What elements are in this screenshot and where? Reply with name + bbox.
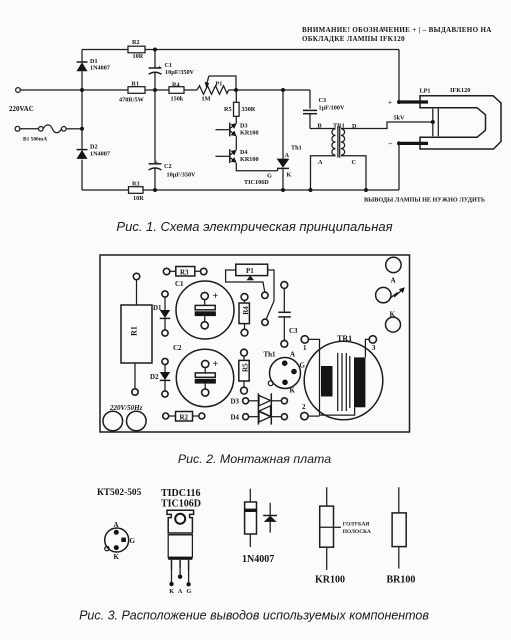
potentiometer P1 1M	[197, 76, 236, 103]
svg-text:A: A	[178, 588, 183, 595]
junction A lead/bottom rail	[309, 188, 313, 192]
svg-text:Рис. 1. Схема электрическая пр: Рис. 1. Схема электрическая принципальна…	[116, 219, 392, 234]
svg-text:D3: D3	[231, 398, 240, 406]
capacitor C3 1uF/100V	[303, 97, 345, 129]
thyristor Th1 (PCB)	[264, 351, 306, 395]
svg-text:ПОЛОСКА: ПОЛОСКА	[343, 529, 371, 535]
svg-text:D3: D3	[240, 123, 248, 130]
svg-text:ОБКЛАДКЕ ЛАМПЫ IFK120: ОБКЛАДКЕ ЛАМПЫ IFK120	[302, 35, 405, 43]
capacitor C1 (PCB)	[175, 280, 234, 339]
svg-text:1µF/100V: 1µF/100V	[319, 105, 345, 112]
svg-text:+: +	[213, 291, 219, 302]
trigger diode D4 KR100	[216, 149, 259, 163]
svg-text:470R/5W: 470R/5W	[119, 97, 145, 104]
svg-text:TIC106D: TIC106D	[161, 499, 201, 510]
svg-text:B1 500mA: B1 500mA	[23, 137, 47, 143]
svg-text:R5: R5	[241, 363, 249, 372]
svg-text:K: K	[169, 588, 174, 595]
diode D1 (PCB)	[153, 291, 170, 336]
wire: right riser top (to lamp +)	[398, 50, 400, 103]
svg-text:–: –	[388, 140, 393, 148]
wire: left vertical bus segments	[81, 50, 83, 191]
svg-text:R3: R3	[132, 181, 140, 188]
junction Th1 cathode/bottom rail	[281, 188, 285, 192]
resistor R5 (PCB)	[239, 349, 249, 394]
wire: rail corner down to C3	[309, 90, 311, 109]
svg-text:C3: C3	[319, 97, 327, 104]
svg-text:K: K	[287, 172, 292, 179]
svg-text:Рис. 2. Монтажная плата: Рис. 2. Монтажная плата	[178, 452, 331, 466]
diode symbol beside 1N4007	[263, 503, 277, 533]
wire: top input lead to middle rail	[20, 89, 82, 91]
svg-text:D2: D2	[150, 373, 159, 381]
svg-text:+: +	[213, 359, 219, 370]
svg-text:КТ502-505: КТ502-505	[97, 488, 142, 498]
diode D2 (PCB)	[150, 358, 170, 397]
wire: right riser bottom (lamp - to rail)	[398, 143, 400, 190]
svg-text:C1: C1	[165, 62, 173, 69]
svg-text:G: G	[300, 362, 306, 370]
node - terminal	[397, 141, 401, 145]
wire: TR1 D lead to trigger (5kV)	[341, 122, 433, 129]
svg-text:IFK120: IFK120	[450, 87, 470, 94]
svg-text:1M: 1M	[202, 96, 211, 103]
resistor R1 (PCB)	[121, 273, 152, 395]
resistor R3 10R	[129, 181, 145, 203]
svg-text:ГОЛУБАЯ: ГОЛУБАЯ	[343, 522, 370, 528]
svg-text:150k: 150k	[171, 96, 184, 103]
wire: D3 to D4	[235, 136, 237, 150]
svg-text:10µF/350V: 10µF/350V	[165, 69, 195, 76]
svg-text:+: +	[388, 99, 392, 107]
transformer TR1	[318, 123, 358, 167]
svg-text:A: A	[290, 351, 295, 359]
svg-text:R2: R2	[180, 414, 189, 422]
transformer TR1 (PCB)	[301, 334, 383, 420]
svg-text:A: A	[114, 521, 119, 529]
wire: D4 to gate of Th1	[236, 163, 277, 171]
svg-text:A: A	[318, 159, 323, 166]
svg-text:1N4007: 1N4007	[90, 65, 110, 72]
hole A (PCB)	[386, 257, 401, 284]
svg-text:+: +	[158, 64, 162, 71]
svg-text:R4: R4	[172, 81, 180, 88]
terminal hole left (PCB)	[103, 411, 123, 431]
junction trigger electrode	[431, 120, 435, 124]
trigger diode BR100 package	[387, 487, 416, 585]
svg-text:C1: C1	[175, 280, 184, 288]
svg-text:P1: P1	[216, 81, 223, 88]
hole K (PCB)	[386, 311, 401, 333]
trigger diode KR100 package	[315, 487, 371, 585]
svg-text:R4: R4	[242, 306, 250, 315]
svg-text:Th1: Th1	[291, 145, 302, 152]
svg-text:D4: D4	[231, 414, 240, 422]
transistor KT502-505 package	[97, 488, 142, 561]
diode D1 1N4007	[77, 58, 110, 72]
note text top right	[302, 26, 492, 43]
capacitor C2 (PCB)	[173, 344, 234, 407]
input terminal J1 bottom	[15, 126, 20, 131]
svg-text:K: K	[290, 387, 296, 395]
junction P1/R5 on middle rail	[234, 88, 238, 92]
svg-text:R5: R5	[224, 106, 232, 113]
svg-text:220VAC: 220VAC	[9, 105, 34, 113]
svg-text:C: C	[352, 159, 356, 166]
trigger diodes D3/D4 block (PCB)	[231, 393, 288, 424]
junction C lead/bottom rail	[364, 188, 368, 192]
trigger diode D3 KR100	[216, 123, 259, 137]
svg-text:1N4007: 1N4007	[90, 151, 110, 158]
svg-text:10R: 10R	[133, 195, 144, 202]
wire: fuse to left bus	[66, 128, 82, 130]
resistor R4 150k	[169, 81, 184, 102]
svg-text:KR100: KR100	[240, 130, 259, 137]
junction C2 bottom rail	[153, 188, 157, 192]
junction Th1 anode on middle rail	[281, 88, 285, 92]
svg-text:TIC106D: TIC106D	[244, 179, 269, 186]
svg-text:R1: R1	[130, 326, 139, 336]
diode 1N4007 package	[242, 489, 274, 565]
svg-text:R2: R2	[132, 39, 140, 46]
svg-text:1: 1	[303, 344, 307, 352]
board outline	[100, 255, 410, 432]
junction at bus/fuse row	[80, 127, 84, 131]
svg-text:Th1: Th1	[264, 351, 277, 359]
wire: R5 branch from rail	[235, 90, 237, 102]
svg-text:D4: D4	[240, 149, 248, 156]
wire: bottom rail	[82, 189, 399, 191]
fuse B1 500mA	[23, 125, 66, 143]
svg-text:5kV: 5kV	[394, 115, 406, 122]
svg-text:C3: C3	[289, 327, 298, 335]
flash lamp LP1 IFK120	[399, 87, 501, 149]
svg-text:+: +	[155, 159, 159, 166]
svg-text:TIDC116: TIDC116	[161, 488, 200, 499]
capacitor C1 10uF/350V	[149, 62, 195, 76]
potentiometer P1 (PCB)	[226, 264, 274, 325]
svg-text:10R: 10R	[133, 53, 144, 60]
resistor R1 470R/5W	[119, 81, 145, 104]
input terminal J1 top	[16, 88, 21, 93]
svg-text:A: A	[391, 277, 396, 285]
svg-text:C2: C2	[164, 163, 172, 170]
wire: middle rail segments	[82, 89, 310, 91]
svg-text:330R: 330R	[242, 106, 256, 113]
svg-text:K: K	[114, 553, 120, 561]
svg-text:R3: R3	[180, 269, 189, 277]
svg-text:KR100: KR100	[315, 575, 345, 586]
resistor R3 (PCB)	[163, 267, 206, 277]
wire: bottom input lead	[20, 128, 39, 130]
svg-text:KR100: KR100	[240, 156, 259, 163]
wire: C3 to TR1 primary (B)	[310, 128, 336, 130]
svg-text:BR100: BR100	[387, 575, 416, 586]
svg-text:ВЫВОДЫ ЛАМПЫ НЕ НУЖНО ЛУДИТЬ: ВЫВОДЫ ЛАМПЫ НЕ НУЖНО ЛУДИТЬ	[364, 197, 485, 204]
svg-text:B: B	[318, 123, 322, 130]
wire: C1-C2 vertical branch	[154, 50, 156, 191]
node + terminal	[397, 100, 401, 104]
capacitor C3 (PCB)	[278, 282, 298, 348]
terminal hole right (PCB)	[127, 411, 147, 431]
svg-text:2: 2	[302, 403, 306, 411]
hole R with trimmer arrow (PCB)	[376, 287, 405, 303]
wire: TR1 C lead to bottom rail	[341, 156, 366, 190]
resistor R2 (PCB)	[163, 412, 205, 422]
svg-text:LP1: LP1	[420, 88, 431, 95]
svg-text:P1: P1	[246, 267, 254, 275]
svg-text:C2: C2	[173, 344, 182, 352]
junction C1 top	[153, 48, 157, 52]
wire: TR1 A lead to bottom rail	[311, 156, 336, 190]
resistor R5 330R	[224, 102, 256, 116]
wire: top rail	[82, 49, 399, 51]
resistor R2 10R	[128, 39, 145, 60]
svg-text:R1: R1	[132, 81, 140, 88]
svg-text:G: G	[187, 588, 192, 595]
wire: R5 to D3	[235, 116, 237, 123]
junction bus/middle rail	[80, 88, 84, 92]
svg-text:G: G	[130, 537, 136, 545]
svg-text:3: 3	[372, 344, 376, 352]
thyristor Th1 TIC106D	[244, 90, 302, 190]
svg-text:1N4007: 1N4007	[242, 554, 274, 565]
svg-text:Рис. 3. Расположение выводов и: Рис. 3. Расположение выводов используемы…	[79, 609, 429, 623]
svg-text:10µF/350V: 10µF/350V	[167, 172, 197, 179]
junction C1/middle rail	[153, 88, 157, 92]
svg-text:ВНИМАНИЕ! ОБОЗНАЧЕНИЕ + | – ВЫ: ВНИМАНИЕ! ОБОЗНАЧЕНИЕ + | – ВЫДАВЛЕНО НА	[302, 26, 492, 34]
diode D2 1N4007	[77, 144, 110, 159]
resistor R4 (PCB)	[239, 294, 250, 336]
svg-text:D2: D2	[90, 144, 98, 151]
thyristor TIC106D package (TO-220)	[161, 488, 201, 595]
capacitor C2 10uF/350V	[149, 159, 196, 179]
svg-text:A: A	[285, 152, 290, 159]
